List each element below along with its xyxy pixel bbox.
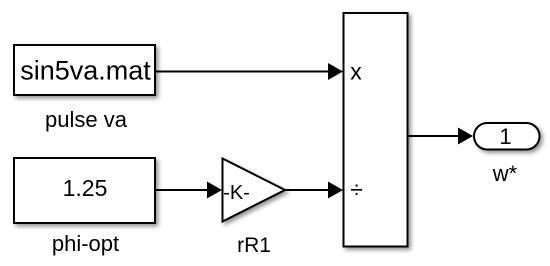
svg-text:-K-: -K- [223,182,250,204]
arrowhead at gain input [207,182,222,199]
wire phi-opt to gain input [156,189,210,191]
constant block (1.25) [14,158,155,223]
svg-text:pulse va: pulse va [45,107,128,132]
svg-text:1: 1 [499,124,511,149]
svg-text:phi-opt: phi-opt [52,231,119,256]
svg-text:sin5va.mat: sin5va.mat [20,56,151,86]
arrowhead at divide input [328,182,343,199]
arrowhead at divide x input [328,63,343,80]
gain block rR1 triangle [223,159,286,222]
svg-text:1.25: 1.25 [63,175,108,201]
svg-text:rR1: rR1 [237,234,271,257]
svg-text:w*: w* [492,161,518,186]
outport block 1 [474,123,540,150]
svg-text:÷: ÷ [350,177,363,203]
wire pulse va to divide x input [156,71,331,73]
svg-text:x: x [350,59,362,85]
from-file source block (sin5va.mat) [14,45,155,95]
wire gain output to divide input [285,189,331,191]
arrowhead at outport [458,128,473,145]
wire divide output to outport [408,135,461,137]
divide block [344,13,408,247]
